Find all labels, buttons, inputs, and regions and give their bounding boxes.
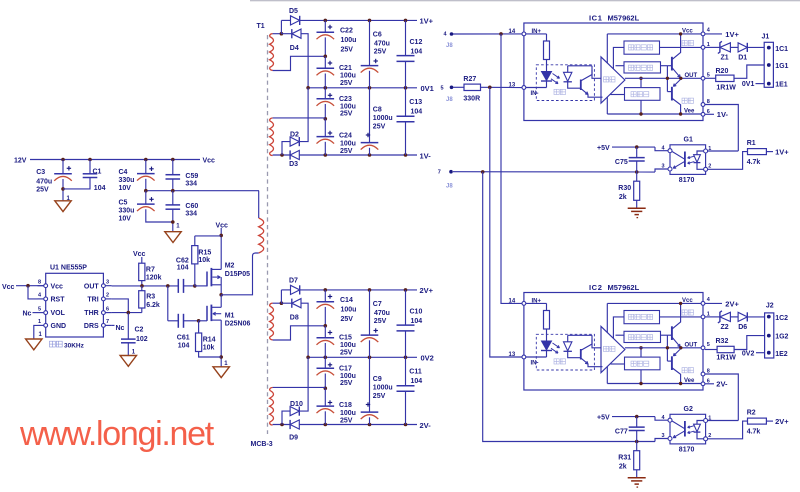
IC2 amplifier: [592, 340, 601, 348]
capacitor C77: [636, 417, 638, 428]
wire to transformer primary: [221, 256, 252, 295]
svg-text:104: 104: [411, 378, 423, 385]
capacitor C61 104: [167, 286, 169, 321]
wire to pin3 G1: [655, 169, 668, 172]
svg-text:30KHz: 30KHz: [64, 342, 85, 349]
capacitor C21: [324, 56, 326, 68]
svg-text:10k: 10k: [198, 257, 210, 264]
svg-text:104: 104: [177, 265, 189, 272]
diode D1: [730, 46, 738, 48]
transformer secondary winding lower 1V+: [270, 121, 274, 153]
IC1 Vee internal: [607, 113, 703, 115]
IC1 opto LED: [542, 72, 552, 81]
wire winding to diodes: [273, 33, 282, 35]
svg-text:R15: R15: [198, 250, 211, 257]
capacitor C59: [171, 158, 175, 162]
svg-text:Vcc: Vcc: [133, 251, 146, 258]
svg-text:C7: C7: [373, 301, 382, 308]
ground earth R30: [628, 207, 646, 209]
svg-text:D6: D6: [738, 324, 747, 331]
capacitor C15: [324, 326, 326, 338]
svg-text:5: 5: [707, 342, 710, 348]
svg-text:10k: 10k: [203, 345, 215, 352]
wire IC2 Vee 2V-: [705, 383, 714, 385]
zener Z2: [705, 316, 720, 318]
IC1 opto transistor: [568, 65, 592, 67]
resistor R3 6.2k: [141, 286, 143, 291]
svg-text:C22: C22: [340, 27, 353, 34]
svg-text:TRI: TRI: [87, 297, 98, 304]
svg-text:Vee: Vee: [684, 109, 695, 115]
diode D6: [730, 316, 738, 318]
svg-text:25V: 25V: [340, 80, 353, 87]
wire IC1 Vcc to 1V+: [705, 33, 722, 35]
svg-text:Nc: Nc: [23, 311, 32, 318]
svg-text:3: 3: [662, 164, 665, 170]
svg-text:104: 104: [94, 185, 106, 192]
svg-text:D25N06: D25N06: [225, 321, 251, 328]
wire to pin3 G2: [655, 439, 668, 442]
IC2 Vee internal: [607, 383, 703, 385]
svg-text:D2: D2: [290, 131, 299, 138]
wire winding to diodes: [273, 302, 282, 304]
capacitor C3: [61, 158, 65, 162]
svg-text:U1 NE555P: U1 NE555P: [50, 265, 87, 272]
svg-text:1V-: 1V-: [717, 110, 729, 119]
svg-text:J8: J8: [446, 184, 453, 190]
svg-text:334: 334: [185, 181, 197, 188]
svg-text:1G1: 1G1: [775, 63, 788, 70]
svg-text:D15P05: D15P05: [225, 271, 250, 278]
resistor R1 4.7k: [748, 149, 767, 155]
svg-text:2V-: 2V-: [716, 380, 728, 389]
IC1 block C: [625, 88, 661, 101]
svg-text:1E2: 1E2: [775, 351, 788, 358]
capacitor C60: [172, 191, 174, 205]
svg-text:1E1: 1E1: [775, 82, 788, 89]
svg-text:100u: 100u: [340, 342, 356, 349]
capacitor C6 470u: [369, 20, 371, 65]
svg-text:1R1W: 1R1W: [716, 85, 736, 92]
wire J8-4 to IC2 pin14: [501, 34, 522, 304]
svg-text:1: 1: [38, 319, 41, 325]
svg-text:7: 7: [438, 170, 441, 176]
svg-text:R30: R30: [618, 185, 631, 192]
svg-text:D7: D7: [289, 278, 298, 285]
svg-text:C4: C4: [119, 169, 128, 176]
svg-text:D8: D8: [290, 315, 299, 322]
svg-text:J8: J8: [446, 97, 453, 103]
svg-text:Vcc: Vcc: [203, 158, 216, 165]
svg-text:G1: G1: [684, 137, 693, 144]
svg-text:8170: 8170: [679, 447, 695, 454]
rail 0V1: [308, 87, 417, 89]
diode D9: [290, 420, 299, 429]
svg-text:OUT: OUT: [685, 343, 698, 349]
svg-text:J1: J1: [762, 33, 770, 40]
capacitor C11 104: [405, 357, 407, 386]
svg-text:100u: 100u: [340, 410, 356, 417]
svg-text:4.7k: 4.7k: [747, 429, 761, 436]
capacitor C10 104: [405, 290, 407, 325]
ground M1 source: [213, 367, 229, 378]
svg-text:C9: C9: [373, 376, 382, 383]
svg-text:+5V: +5V: [597, 145, 610, 152]
svg-text:25V: 25V: [340, 110, 353, 117]
svg-text:DRS: DRS: [84, 323, 99, 330]
rail 0V2: [308, 356, 417, 358]
svg-text:25V: 25V: [373, 393, 386, 400]
svg-text:330u: 330u: [119, 208, 135, 215]
label oscillator frequency: [50, 341, 56, 347]
transformer primary winding: [259, 218, 264, 253]
svg-text:IC1: IC1: [589, 13, 602, 22]
svg-text:100u: 100u: [340, 73, 356, 80]
IC2 block C: [625, 357, 661, 370]
resistor R32 1R1W: [705, 349, 717, 351]
transformer secondary winding lower 2V+: [270, 390, 274, 422]
svg-text:C15: C15: [339, 334, 352, 341]
svg-text:Z2: Z2: [721, 324, 729, 331]
svg-text:C23: C23: [339, 96, 352, 103]
svg-text:R2: R2: [747, 410, 756, 417]
svg-text:14: 14: [509, 299, 516, 305]
svg-text:R31: R31: [618, 454, 631, 461]
svg-text:25V: 25V: [340, 418, 353, 425]
diode D7: [281, 289, 290, 291]
svg-text:C5: C5: [119, 200, 128, 207]
wire IC2 S to G2: [705, 374, 738, 421]
svg-text:C61: C61: [177, 335, 190, 342]
svg-text:5: 5: [38, 306, 41, 312]
capacitor C62 104: [177, 279, 179, 293]
diode D8: [281, 302, 291, 304]
svg-text:25V: 25V: [341, 316, 354, 323]
svg-text:Vcc: Vcc: [682, 28, 693, 34]
svg-text:OUT: OUT: [84, 283, 100, 290]
svg-text:6: 6: [106, 306, 109, 312]
svg-text:0V2: 0V2: [742, 351, 755, 358]
svg-text:D4: D4: [290, 45, 299, 52]
svg-text:470u: 470u: [374, 40, 390, 47]
svg-text:+5V: +5V: [597, 415, 610, 422]
svg-text:5: 5: [441, 86, 444, 92]
svg-text:M2: M2: [225, 263, 235, 270]
capacitor C22: [324, 20, 326, 32]
svg-text:C8: C8: [373, 106, 382, 113]
ground earth R31: [628, 477, 646, 479]
IC2 opto transistor: [568, 334, 592, 336]
IC2 power rail left: [606, 303, 608, 332]
svg-text:1V+: 1V+: [420, 16, 434, 25]
rail 2V+: [300, 289, 417, 291]
capacitor C75: [636, 147, 638, 158]
svg-text:25V: 25V: [374, 49, 387, 56]
svg-text:14: 14: [509, 29, 516, 35]
svg-text:Nc: Nc: [116, 325, 125, 332]
IC1 power rail left: [606, 34, 608, 63]
wire winding bottom to cap node: [273, 326, 326, 340]
diode D3: [290, 150, 299, 159]
svg-text:104: 104: [411, 108, 423, 115]
svg-text:R27: R27: [463, 76, 476, 83]
capacitor C24: [324, 119, 326, 137]
svg-text:100u: 100u: [340, 140, 356, 147]
svg-text:C21: C21: [339, 65, 352, 72]
svg-text:25V: 25V: [340, 148, 353, 155]
svg-text:www.longi.net: www.longi.net: [19, 415, 215, 453]
svg-text:Vee: Vee: [684, 378, 695, 384]
svg-text:Z1: Z1: [721, 54, 729, 61]
svg-text:C62: C62: [176, 257, 189, 264]
svg-text:C13: C13: [409, 99, 422, 106]
IC1 output transistors: [625, 77, 703, 79]
IC2 right pins: [701, 302, 705, 306]
svg-text:25V: 25V: [373, 124, 386, 131]
capacitor C23: [324, 88, 326, 99]
svg-text:C77: C77: [615, 429, 628, 436]
svg-text:0V2: 0V2: [421, 354, 434, 363]
transformer secondary winding 2V+: [270, 306, 274, 337]
IC2 input resistor: [526, 302, 547, 304]
svg-text:C60: C60: [185, 203, 198, 210]
resistor R31 2k: [636, 442, 638, 451]
IC1 photodiode: [564, 72, 572, 81]
svg-text:2k: 2k: [619, 463, 627, 470]
svg-text:13: 13: [509, 83, 516, 89]
svg-text:R3: R3: [146, 294, 155, 301]
svg-text:C6: C6: [373, 31, 382, 38]
svg-text:J8: J8: [446, 43, 453, 49]
svg-text:330u: 330u: [119, 177, 135, 184]
svg-text:0V1: 0V1: [742, 81, 755, 88]
svg-text:104: 104: [411, 48, 423, 55]
wire pin2 to R1: [708, 152, 748, 170]
svg-text:C17: C17: [339, 366, 352, 373]
resistor R2 4.7k: [748, 418, 767, 424]
svg-text:1V+: 1V+: [725, 30, 739, 39]
svg-text:R7: R7: [146, 267, 155, 274]
svg-text:IN-: IN-: [531, 361, 539, 367]
svg-text:RST: RST: [51, 297, 66, 304]
svg-text:100u: 100u: [341, 307, 357, 314]
svg-text:Vcc: Vcc: [51, 283, 64, 290]
svg-text:8170: 8170: [679, 177, 695, 184]
svg-text:T1: T1: [257, 23, 265, 30]
wire J8-5 to IC2 pin13: [490, 87, 522, 357]
diode D4: [281, 33, 291, 35]
svg-text:2V+: 2V+: [775, 417, 789, 426]
svg-text:C11: C11: [409, 369, 422, 376]
IC1 right pins: [701, 32, 705, 36]
svg-text:0V1: 0V1: [421, 84, 434, 93]
svg-text:13: 13: [509, 352, 516, 358]
svg-text:IC2: IC2: [589, 283, 602, 292]
capacitor C18: [324, 388, 326, 406]
svg-text:6.2k: 6.2k: [146, 302, 160, 309]
wire pin1 up: [708, 420, 739, 422]
svg-text:M1: M1: [225, 313, 235, 320]
capacitor C9 1000u: [369, 357, 371, 412]
svg-text:10V: 10V: [119, 216, 132, 223]
rail 1V+: [300, 19, 417, 21]
transistor M2 D15P05: [195, 285, 207, 287]
svg-text:104: 104: [178, 343, 190, 350]
capacitor C8 1000u: [369, 88, 371, 143]
svg-text:25V: 25V: [340, 380, 353, 387]
capacitor C17: [324, 357, 326, 368]
wire OUT row: [112, 285, 179, 287]
svg-text:GND: GND: [51, 323, 67, 330]
wire J8-7 to G1: [453, 171, 655, 173]
svg-text:Vcc: Vcc: [2, 284, 15, 291]
svg-text:334: 334: [185, 211, 197, 218]
svg-text:1R1W: 1R1W: [716, 354, 736, 361]
svg-text:2V+: 2V+: [420, 286, 434, 295]
svg-text:M57962L: M57962L: [608, 283, 640, 292]
capacitor C2 102: [127, 313, 129, 340]
IC2 block A: [624, 311, 660, 324]
IC2 opto dashed box: [536, 334, 594, 370]
svg-text:VOL: VOL: [51, 310, 66, 317]
svg-text:25V: 25V: [374, 318, 387, 325]
IC1 Vcc internal: [607, 33, 703, 35]
IC1 block A: [624, 41, 660, 54]
ground 555 GND pin: [34, 325, 38, 339]
ground: [55, 201, 71, 212]
svg-text:1V+: 1V+: [775, 147, 789, 156]
wire J8-7 down to G2: [483, 172, 655, 442]
wire winding bottom to cap node: [273, 56, 326, 70]
svg-text:12V: 12V: [14, 158, 27, 165]
svg-text:C10: C10: [410, 309, 423, 316]
transistor M1 D25N06: [199, 320, 207, 322]
svg-text:R1: R1: [747, 140, 756, 147]
svg-text:1C1: 1C1: [775, 46, 788, 53]
svg-text:10V: 10V: [119, 185, 132, 192]
svg-text:2k: 2k: [619, 194, 627, 201]
node Nc DRS: [112, 324, 115, 326]
svg-text:C14: C14: [340, 297, 353, 304]
svg-text:D1: D1: [738, 54, 747, 61]
svg-text:D3: D3: [289, 161, 298, 168]
wire IC1 S to G1: [705, 105, 738, 152]
ground: [165, 232, 181, 243]
capacitor C12 104: [405, 20, 407, 55]
capacitor C14: [324, 290, 326, 302]
svg-text:102: 102: [136, 336, 148, 343]
svg-text:100u: 100u: [341, 37, 357, 44]
svg-text:C18: C18: [339, 402, 352, 409]
transformer secondary winding 1V+: [270, 37, 274, 68]
IC2 opto LED: [542, 341, 552, 350]
node mid rail to transformer primary: [146, 190, 259, 192]
resistor R30 2k: [636, 172, 638, 181]
IC2 output transistors: [625, 347, 703, 349]
wire IC1 Vee 1V-: [705, 113, 714, 115]
svg-text:3: 3: [106, 280, 109, 286]
IC1 amplifier: [592, 70, 601, 78]
svg-text:R14: R14: [203, 337, 216, 344]
IC1 block B: [624, 62, 661, 73]
capacitor C1: [88, 158, 92, 162]
svg-text:C12: C12: [410, 39, 423, 46]
svg-text:C75: C75: [615, 159, 628, 166]
svg-text:Vcc: Vcc: [682, 298, 693, 304]
svg-text:330R: 330R: [463, 95, 480, 102]
wire IC2 Vcc to 2V+: [705, 302, 722, 304]
wire pin2 to R2: [708, 421, 748, 439]
svg-text:2V+: 2V+: [725, 300, 739, 309]
diode D5: [281, 19, 290, 21]
svg-text:R20: R20: [716, 68, 729, 75]
svg-text:25V: 25V: [36, 187, 49, 194]
svg-text:25V: 25V: [340, 350, 353, 357]
rail 1V-: [273, 154, 417, 156]
zener Z1: [705, 46, 720, 48]
svg-text:D10: D10: [290, 401, 303, 408]
svg-text:2: 2: [106, 293, 109, 299]
svg-text:25V: 25V: [341, 46, 354, 53]
svg-text:1000u: 1000u: [373, 115, 393, 122]
svg-text:C24: C24: [339, 132, 352, 139]
svg-text:104: 104: [411, 318, 423, 325]
rail 2V-: [273, 424, 417, 426]
svg-text:1000u: 1000u: [373, 385, 393, 392]
capacitor C5: [145, 191, 147, 204]
svg-text:470u: 470u: [374, 310, 390, 317]
svg-text:C59: C59: [185, 173, 198, 180]
svg-text:2V-: 2V-: [420, 421, 432, 430]
svg-text:1V-: 1V-: [420, 152, 432, 161]
svg-text:D5: D5: [289, 8, 298, 15]
svg-text:C3: C3: [36, 169, 45, 176]
diode D10: [282, 411, 290, 424]
IC2 photodiode: [564, 342, 572, 351]
svg-text:C1: C1: [93, 169, 102, 176]
svg-text:1G2: 1G2: [775, 334, 788, 341]
svg-text:MCB-3: MCB-3: [251, 441, 273, 448]
capacitor C13 104: [405, 88, 407, 117]
svg-text:C2: C2: [135, 327, 144, 334]
resistor R14 10k: [198, 321, 200, 333]
capacitor C4: [144, 158, 148, 162]
svg-text:8: 8: [38, 280, 41, 286]
svg-text:THR: THR: [84, 310, 98, 317]
svg-text:IN-: IN-: [531, 91, 539, 97]
svg-text:G2: G2: [684, 406, 693, 413]
IC1 input resistor: [526, 33, 547, 35]
svg-text:5: 5: [707, 73, 710, 79]
resistor R20 1R1W: [705, 77, 716, 79]
IC2 Vcc internal: [607, 302, 703, 304]
capacitor C7 470u: [369, 290, 371, 335]
wire pin1 up: [708, 150, 739, 152]
diode D2: [282, 142, 290, 155]
wire TRI THR: [112, 299, 129, 313]
svg-text:4.7k: 4.7k: [747, 159, 761, 166]
svg-text:120k: 120k: [146, 275, 162, 282]
IC1 opto dashed box: [536, 65, 594, 101]
IC2 block B: [624, 331, 661, 342]
svg-text:7: 7: [106, 319, 109, 325]
svg-text:D9: D9: [289, 435, 298, 442]
svg-text:OUT: OUT: [685, 73, 698, 79]
svg-text:R32: R32: [716, 338, 729, 345]
svg-text:Vcc: Vcc: [216, 222, 229, 229]
svg-text:1C2: 1C2: [775, 315, 788, 322]
resistor R27 330R: [453, 86, 464, 88]
